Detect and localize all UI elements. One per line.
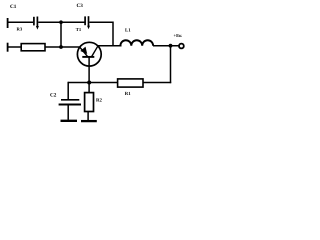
node E junction: [87, 81, 91, 85]
wire collector rail: [98, 45, 122, 47]
svg-text:R3: R3: [17, 27, 23, 32]
capacitor C3: [85, 16, 90, 29]
wire corner down to C2: [67, 83, 70, 100]
wire C2 to ground: [67, 105, 69, 119]
wire C down right side: [170, 46, 172, 83]
svg-text:T1: T1: [76, 27, 82, 32]
capacitor C2: [59, 100, 81, 105]
wire top rail right with corner down: [89, 22, 113, 46]
wire top rail left: [8, 21, 33, 23]
svg-text:+Eк: +Eк: [174, 33, 183, 38]
node C junction: [169, 44, 173, 48]
svg-text:R2: R2: [96, 98, 102, 104]
svg-text:R1: R1: [125, 91, 131, 97]
wire A to B vertical: [60, 22, 62, 47]
ground bar right: [81, 120, 97, 122]
terminal input top: [7, 18, 9, 28]
resistor R1: [118, 79, 143, 87]
ground bar left: [61, 120, 78, 122]
wire R3 to emitter: [45, 46, 80, 48]
svg-text:C3: C3: [77, 3, 84, 9]
resistor R2: [85, 93, 94, 112]
terminal input bottom: [7, 43, 9, 52]
wire bottom rail left: [68, 82, 118, 84]
svg-text:L1: L1: [125, 28, 131, 34]
capacitor C1: [34, 17, 39, 30]
wire L1 to output terminal: [153, 45, 179, 47]
wire top rail mid: [38, 21, 84, 23]
inductor L1: [120, 40, 153, 45]
node A junction: [59, 20, 63, 24]
wire R2 to ground: [87, 112, 89, 121]
terminal +Ek ring: [179, 44, 184, 49]
wire bottom rail right: [143, 82, 171, 84]
node B junction: [59, 45, 63, 49]
resistor R3: [21, 44, 45, 51]
wire left rail to R3: [8, 46, 22, 48]
svg-text:C1: C1: [10, 4, 17, 10]
transistor T1: [77, 42, 101, 92]
svg-text:C2: C2: [50, 93, 57, 99]
